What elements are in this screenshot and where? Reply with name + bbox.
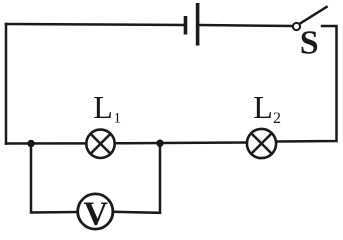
svg-text:1: 1 (114, 111, 122, 127)
svg-text:2: 2 (273, 110, 281, 127)
svg-text:L: L (253, 89, 273, 125)
svg-text:V: V (84, 195, 109, 232)
svg-text:L: L (93, 89, 113, 125)
svg-text:S: S (300, 24, 319, 61)
